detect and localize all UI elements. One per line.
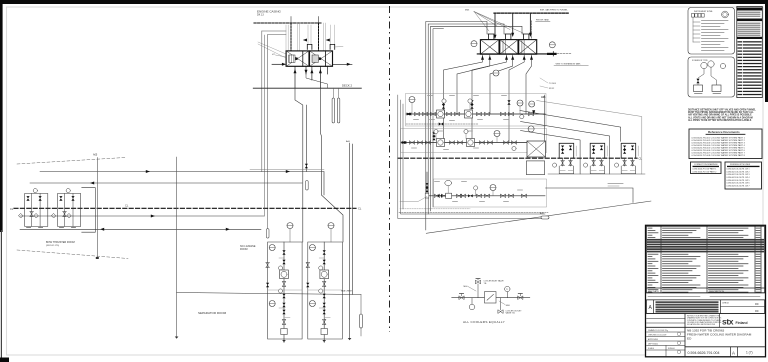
- svg-text:A05: A05: [93, 154, 98, 157]
- cooler vent stub 3: [529, 13, 531, 34]
- base end flange: [547, 53, 557, 55]
- svg-text:CL: CL: [10, 207, 14, 211]
- transverse pipe run third: [20, 215, 264, 217]
- drawing number strip: [685, 347, 765, 357]
- riser valve stack 3: [507, 100, 510, 105]
- sloped feed run 2: [521, 122, 610, 175]
- sloped feed run 1: [520, 111, 621, 142]
- engine drain stubs: [295, 66, 328, 88]
- detail drain valve bottom: [498, 310, 503, 313]
- centreline dashed: [14, 207, 356, 209]
- svg-text:A: A: [732, 350, 735, 355]
- svg-text:CHECK: CHECK: [722, 303, 730, 305]
- vent elbow engine 2: [330, 44, 335, 49]
- cooler vent stub 2: [512, 13, 514, 34]
- leader M06: [499, 301, 505, 305]
- drain end symbol: [348, 338, 352, 340]
- instrument circle below coolers: [493, 70, 499, 76]
- frame vertical 97: [96, 158, 98, 259]
- svg-text:0.594.6625 06.26.791 CW 6: 0.594.6625 06.26.791 CW 6: [727, 183, 750, 185]
- riser valve stack 1: [442, 100, 445, 105]
- fresh water cooler 1: [480, 40, 499, 55]
- svg-text:SCALE: SCALE: [648, 347, 655, 350]
- bow thruster cooling group 2: [52, 189, 81, 228]
- frame vertical 177: [176, 157, 178, 337]
- deck diagonal line: [426, 201, 651, 233]
- vent riser above boundary right: [318, 17, 320, 24]
- svg-text:DEPT 65411: DEPT 65411: [648, 343, 658, 345]
- arrowhead into engine 1 top: [303, 39, 307, 42]
- header loop outer: [426, 22, 489, 231]
- svg-text:FI SENSOR TYPE: FI SENSOR TYPE: [692, 60, 708, 62]
- label leader right: [334, 46, 343, 49]
- riser right pair B: [351, 144, 353, 295]
- svg-text:VIOLATION WILL BE PROSECUTED: VIOLATION WILL BE PROSECUTED: [687, 323, 716, 326]
- svg-text:stx: stx: [722, 317, 734, 327]
- cooling pump column 2: [306, 242, 342, 343]
- svg-text:APPROVED: APPROVED: [648, 338, 659, 341]
- instrument circle above column 2: [328, 223, 334, 229]
- pump train 1: [406, 94, 547, 127]
- supply line left outer: [262, 30, 286, 32]
- sea chest cooling loop 2: [584, 143, 608, 173]
- engine inlet pipe left: [272, 63, 282, 65]
- detail heat exchanger box: [485, 292, 497, 303]
- left black border bar: [0, 0, 3, 232]
- all coolers equally detail: [452, 279, 530, 324]
- label fan to engines: [258, 42, 286, 58]
- engine pipe risers above: [286, 23, 334, 51]
- svg-text:EXH. GAS PIPES TO FUNNEL: EXH. GAS PIPES TO FUNNEL: [540, 9, 569, 12]
- pipe sleeve on run fourth: [266, 229, 269, 239]
- long riser right of trains: [543, 95, 545, 141]
- svg-text:CONNECTION DRAWINGS: CONNECTION DRAWINGS: [694, 163, 718, 166]
- instrument circle above column 1: [287, 223, 293, 229]
- riser valve stack 2: [470, 100, 473, 105]
- svg-text:FR 52: FR 52: [549, 88, 554, 90]
- svg-text:FRESH WATER COOLING WATER DIAG: FRESH WATER COOLING WATER DIAGRAM: [687, 333, 752, 337]
- pump train 3: [399, 172, 623, 212]
- svg-text:SIZE A1: SIZE A1: [668, 347, 675, 350]
- pipe sleeve on run second: [306, 181, 309, 191]
- sloped feed run 3: [521, 131, 581, 175]
- svg-text:A06: A06: [541, 96, 546, 99]
- svg-text:DRAWN 12.05.2009 TKy: DRAWN 12.05.2009 TKy: [648, 329, 668, 332]
- drawing title: [687, 329, 752, 341]
- svg-text:T.B.: T.B.: [484, 283, 488, 285]
- cooling pump column 1: [266, 242, 302, 343]
- revision footer rows: [647, 287, 765, 289]
- riser right pair A: [349, 143, 351, 338]
- svg-text:0.594.6620 06.26.791 CW 1: 0.594.6620 06.26.791 CW 1: [727, 169, 750, 171]
- forward boundary dashed upper: [17, 158, 125, 165]
- svg-text:RD: RD: [755, 310, 759, 313]
- tank box below centreline: [526, 161, 544, 175]
- svg-text:ALL PIPES TO BE FITTED WITH ID: ALL PIPES TO BE FITTED WITH IDENTIFICATI…: [688, 119, 752, 122]
- riser left connecting: [263, 35, 265, 216]
- svg-text:BOW THRUSTER ROOM: BOW THRUSTER ROOM: [46, 241, 75, 244]
- svg-text:0.594.6626 06.26.791 CW 7: 0.594.6626 06.26.791 CW 7: [727, 185, 750, 187]
- title block outer: [646, 225, 766, 356]
- svg-text:ALL VENTS AND DRAINS ARE NOT S: ALL VENTS AND DRAINS ARE NOT SHOWN IN A …: [688, 116, 753, 119]
- cooler vent stub 1: [494, 13, 496, 36]
- instrument circle right of coolers: [549, 42, 555, 48]
- vent riser above boundary left: [290, 17, 292, 24]
- disclaimer and logo row: [647, 314, 765, 357]
- svg-text:SEA CHEST: SEA CHEST: [341, 290, 353, 293]
- header loop middle: [428, 24, 505, 214]
- svg-text:CL: CL: [358, 207, 362, 211]
- overflow sleeve right: [360, 295, 362, 315]
- right black border bar: [765, 0, 768, 102]
- svg-text:0.594.6622 06.26.791 CW 3: 0.594.6622 06.26.791 CW 3: [727, 174, 750, 176]
- vent elbow engine 1: [307, 44, 312, 49]
- engine label leader: [275, 55, 286, 57]
- dashed riser right: [531, 21, 533, 40]
- svg-text:(FR 162-175): (FR 162-175): [46, 245, 59, 247]
- revision description block: [647, 300, 765, 314]
- riser from engine 1 down: [295, 88, 303, 242]
- svg-text:FW EXP. TANK: FW EXP. TANK: [536, 19, 550, 22]
- svg-text:RUNNING WITH LINES: RUNNING WITH LINES: [730, 164, 751, 166]
- svg-text:0.594.6621 06.26.791 CW 2: 0.594.6621 06.26.791 CW 2: [727, 171, 750, 173]
- cooler inlet elbow 2: [506, 34, 511, 40]
- central cooler box: [527, 141, 546, 157]
- detail valve right: [518, 296, 523, 299]
- vent label line right: [554, 65, 588, 67]
- drawing list table left: [691, 162, 722, 174]
- svg-text:Finland: Finland: [736, 321, 748, 325]
- diesel engine 1: [286, 51, 309, 66]
- svg-text:0.594.6626.791.004: 0.594.6626.791.004: [688, 351, 720, 355]
- svg-text:REV DATE: REV DATE: [648, 290, 659, 293]
- return run to diagonal: [546, 188, 634, 203]
- dashed stub right of base: [557, 53, 572, 55]
- cooler outlet drop pipes: [444, 54, 532, 142]
- revision table: [647, 226, 765, 292]
- riser from engine 2 down with jog: [320, 88, 343, 242]
- riser sleeve 1: [442, 110, 444, 117]
- svg-text:VENT TO EXPANSION TANK: VENT TO EXPANSION TANK: [556, 63, 582, 66]
- svg-text:TO DK4: TO DK4: [549, 83, 556, 85]
- svg-text:0.594.6623 06.26.791 CW 4: 0.594.6623 06.26.791 CW 4: [727, 177, 750, 179]
- exhaust riser dashed to engine 2: [318, 23, 320, 51]
- sea chest cooling loop 3: [615, 143, 639, 173]
- bottom-left black corner nub: [0, 358, 9, 362]
- arrowhead into engine 2 top: [326, 39, 330, 42]
- leader M04: [468, 287, 476, 292]
- approval strip: [647, 299, 765, 301]
- svg-text:0.594.6626.792 CW PART 2: 0.594.6626.792 CW PART 2: [693, 170, 717, 173]
- svg-text:DISTANCE BETWEEN SHUT-OFF VALV: DISTANCE BETWEEN SHUT-OFF VALVES AND OPE…: [688, 109, 757, 112]
- fresh water cooler 2: [500, 40, 518, 55]
- svg-text:DK 13: DK 13: [257, 14, 264, 17]
- label line above cooler 3: [536, 21, 550, 23]
- detail pipe line: [452, 297, 530, 299]
- frame tag on diagonal: [541, 216, 549, 219]
- svg-text:INSTRUMENT SYMB.: INSTRUMENT SYMB.: [694, 11, 713, 13]
- detail valve left: [459, 296, 464, 299]
- header loop inner: [431, 26, 524, 211]
- suction pipe run: [177, 293, 361, 295]
- detail TI instrument: [505, 286, 510, 291]
- top black border bar: [0, 0, 768, 4]
- svg-text:0.594.6624 06.26.791 CW 5: 0.594.6624 06.26.791 CW 5: [727, 180, 750, 182]
- svg-text:DESCRIPTION: DESCRIPTION: [709, 291, 724, 293]
- drawing list table right: [725, 162, 762, 189]
- transverse pipe run fourth: [20, 228, 261, 230]
- svg-text:MUST THE PIPING ARRANGEMENT BE: MUST THE PIPING ARRANGEMENT BE MADE SO T…: [688, 111, 754, 114]
- left thin border line: [1, 230, 2, 358]
- reference documents box: [689, 129, 762, 159]
- pump train 2: [401, 129, 547, 153]
- svg-text:RD: RD: [755, 303, 759, 306]
- expansion sleeve 2: [338, 88, 340, 98]
- signature area: [647, 329, 686, 357]
- centre separator dashed line: [389, 6, 391, 332]
- svg-text:ALL COOLERS EQUALLY: ALL COOLERS EQUALLY: [463, 320, 505, 324]
- svg-text:ROOM: ROOM: [240, 248, 247, 251]
- general notes text: [688, 109, 757, 122]
- equipment tag specks: [412, 96, 523, 202]
- pipe class table: [737, 7, 763, 98]
- deck 2 line: [253, 87, 361, 89]
- return run under loops: [548, 173, 645, 175]
- crossover pipe below engines: [306, 74, 328, 88]
- detail PI instrument: [469, 304, 475, 310]
- leader pair lower: [540, 78, 548, 88]
- engine outlet pipe right: [333, 63, 353, 65]
- svg-text:SEPARATOR ROOM: SEPARATOR ROOM: [198, 311, 227, 315]
- centreline dashed right: [398, 157, 637, 159]
- svg-text:ED: ED: [687, 337, 692, 341]
- forward boundary dashed lower: [17, 250, 128, 259]
- svg-text:VALVE T.B.: VALVE T.B.: [506, 312, 516, 315]
- svg-text:CL: CL: [125, 204, 129, 208]
- cooler inlet elbow 1: [489, 34, 494, 40]
- casing boundary dashed line: [254, 22, 321, 24]
- svg-text:0.594.6626.797.008 COOLING WA: 0.594.6626.797.008 COOLING WATER SYSTEM …: [692, 154, 746, 157]
- diesel engine 2: [310, 51, 333, 66]
- exhaust riser dashed to engine 1: [290, 23, 292, 51]
- svg-text:DECK 2: DECK 2: [342, 84, 353, 88]
- instrument circle left of coolers: [471, 41, 477, 47]
- svg-text:Reference Documents: Reference Documents: [708, 130, 740, 134]
- detail bypass valve top: [476, 280, 481, 283]
- cooler base line: [477, 53, 553, 55]
- deck slope line upper: [537, 101, 642, 175]
- cooler inlet elbow 3: [524, 34, 529, 40]
- supply line left inner: [268, 34, 286, 36]
- svg-text:1 (7): 1 (7): [746, 351, 753, 355]
- riser mid with valve: [305, 105, 307, 172]
- sea chest cooling loop 1: [553, 143, 577, 173]
- header loop fourth: [433, 29, 444, 207]
- transverse pipe run second: [30, 182, 302, 184]
- thruster group outer loop: [82, 188, 96, 233]
- instrument circle stack right: [529, 101, 535, 107]
- legend box instrument symbols: [688, 8, 735, 55]
- funnel boundary dashed line: [494, 12, 568, 14]
- svg-text:AIR VENTING AND DRAINING OF AL: AIR VENTING AND DRAINING OF ALL PIPES IS…: [688, 114, 752, 117]
- parallel stub above upper run: [250, 168, 324, 170]
- svg-text:0.594.6626.791 CW PART 1: 0.594.6626.791 CW PART 1: [693, 168, 717, 171]
- fresh water cooler 3: [519, 40, 537, 55]
- train loop left risers: [398, 95, 545, 219]
- legend box sensor arrangement: [688, 57, 735, 97]
- expansion sleeve 1: [332, 88, 334, 98]
- svg-text:CHECKED 15.05.2009: CHECKED 15.05.2009: [648, 334, 666, 336]
- bow thruster cooling group 1: [19, 189, 48, 228]
- transverse pipe run upper: [40, 172, 324, 196]
